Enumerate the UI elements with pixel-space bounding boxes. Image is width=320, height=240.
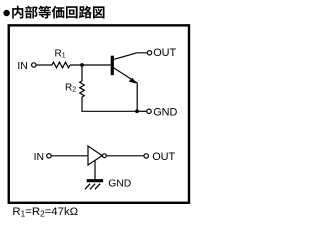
inverter U1 bubble [103,154,107,158]
svg-text:OUT: OUT [152,151,175,163]
wire junction to GND terminal [137,110,147,112]
wire junction to R2 [81,65,83,81]
frame box [9,25,189,202]
svg-text:GND: GND [153,107,177,119]
transistor Q1 collector [114,53,147,60]
transistor Q1 base bar [111,56,114,75]
transistor Q1 emitter [114,68,137,111]
title text 内部等価回路図 [12,6,104,19]
node OUT (top) terminal [147,47,176,59]
node IN (top) terminal [17,61,36,72]
wire inverter to OUT [106,155,144,157]
wire IN to R1 [36,64,52,66]
node junction dot A [80,63,84,67]
inverter U1 triangle [88,146,102,165]
svg-text:GND: GND [108,179,131,190]
wire R2 to ground rail [82,97,137,111]
svg-text:R1: R1 [55,49,66,60]
wire R1 to base [70,64,111,66]
node junction dot emitter-gnd [135,109,139,113]
resistor R2 [65,81,84,97]
node IN (bottom) terminal [34,152,52,163]
title bullet [3,10,9,16]
svg-text:OUT: OUT [153,47,176,59]
wire IN to inverter [51,155,88,157]
svg-text:R2: R2 [65,83,76,94]
svg-text:IN: IN [34,152,44,163]
wire inverter to ground [94,160,96,179]
ground symbol [85,181,103,190]
resistor R1 [52,49,70,68]
node GND (top) terminal [147,107,178,119]
svg-text:R1=R2=47kΩ: R1=R2=47kΩ [12,206,78,219]
svg-text:IN: IN [17,61,27,72]
node OUT (bottom) terminal [144,151,176,163]
transistor Q1 emitter arrow [129,78,137,84]
